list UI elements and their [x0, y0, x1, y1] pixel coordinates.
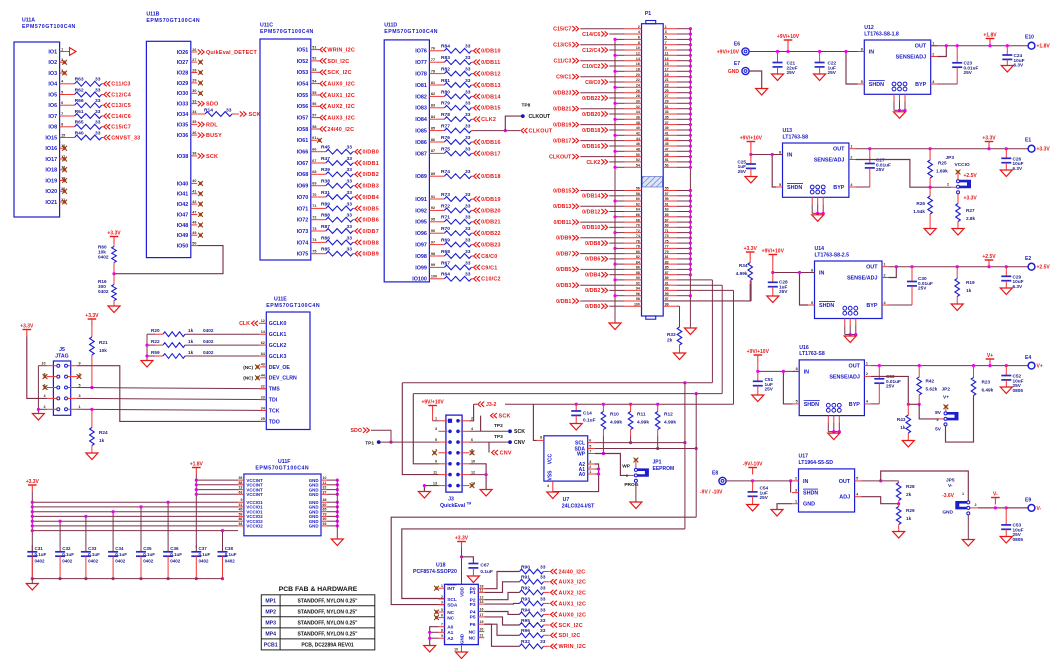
- power +2.5V: [985, 259, 994, 261]
- svg-text:R73: R73: [441, 192, 450, 198]
- svg-text:STANDOFF, NYLON 0.25": STANDOFF, NYLON 0.25": [297, 621, 358, 627]
- resistor R69 33: [436, 244, 445, 246]
- resistor R63 33: [66, 83, 75, 85]
- svg-text:+3.3V: +3.3V: [744, 246, 758, 252]
- P1 pin 16 (left): [625, 65, 642, 67]
- svg-text:9: 9: [435, 460, 437, 464]
- svg-text:85: 85: [665, 266, 669, 270]
- SDA vertical right: [695, 394, 697, 518]
- P1 pin 13 (right): [663, 60, 677, 62]
- svg-text:91: 91: [431, 195, 435, 199]
- svg-text:0805: 0805: [1013, 537, 1024, 542]
- svg-text:100: 100: [431, 275, 437, 279]
- svg-text:16: 16: [480, 608, 484, 612]
- svg-text:SENSE/ADJ: SENSE/ADJ: [847, 276, 878, 282]
- capacitor C67 0.1uF: [462, 557, 474, 564]
- J5 pins 2/1: [57, 408, 60, 411]
- P1 pin 57 (right): [663, 195, 677, 197]
- wire P1 pin 6 to left rail: [615, 38, 625, 40]
- P1 pin 20 (left): [625, 76, 642, 78]
- svg-text:8: 8: [811, 268, 813, 272]
- net label AUX2_I2C: [551, 590, 557, 595]
- svg-text:0/DB5: 0/DB5: [363, 206, 379, 212]
- P1 pin 52 (left): [625, 161, 642, 163]
- wire P1 pin 3 to right rail: [677, 33, 690, 35]
- svg-text:0/DB2: 0/DB2: [585, 288, 600, 294]
- svg-text:(NC): (NC): [243, 365, 253, 370]
- wire P1 pin 91 crossover: [677, 284, 722, 286]
- svg-text:22: 22: [636, 78, 640, 82]
- resistor R70 33: [436, 232, 445, 234]
- svg-text:AUX0_I2C: AUX0_I2C: [327, 82, 355, 88]
- svg-text:43: 43: [665, 137, 669, 141]
- svg-text:0/DB10: 0/DB10: [582, 225, 600, 231]
- svg-text:R70: R70: [441, 226, 450, 232]
- X no-connect U18 NC pins: [434, 610, 439, 615]
- svg-text:25V: 25V: [964, 70, 973, 75]
- svg-text:58: 58: [312, 125, 316, 129]
- wire P1 pin 11 to right rail: [677, 54, 690, 56]
- svg-text:33: 33: [347, 247, 353, 253]
- jumper JP2: [944, 404, 949, 409]
- P1 pin 97 (right): [663, 300, 677, 302]
- svg-text:IO8: IO8: [48, 125, 57, 131]
- wire P1 pin 27 to right rail: [677, 97, 690, 99]
- P1 pin 38 (left): [625, 124, 642, 126]
- resistor R80 33: [436, 95, 445, 97]
- svg-text:LT1763-S8-1.8: LT1763-S8-1.8: [864, 31, 899, 37]
- svg-text:IO69: IO69: [297, 184, 309, 190]
- capacitor C31 0.1uF 0402: [31, 545, 33, 552]
- P1 pin 47 (right): [663, 150, 677, 152]
- svg-text:57: 57: [312, 113, 316, 117]
- svg-text:41: 41: [665, 132, 669, 136]
- svg-text:R43: R43: [897, 417, 906, 422]
- svg-text:100: 100: [634, 302, 640, 306]
- svg-text:0402: 0402: [62, 558, 73, 563]
- P1 pin 14 (left): [625, 60, 642, 62]
- svg-text:EPM570GT100C4N: EPM570GT100C4N: [22, 24, 76, 30]
- svg-text:0/DB14: 0/DB14: [481, 94, 501, 100]
- svg-text:0.1uF: 0.1uF: [62, 552, 74, 557]
- svg-text:0/DB11: 0/DB11: [553, 220, 571, 226]
- svg-text:0/DB9: 0/DB9: [363, 252, 379, 258]
- svg-text:81: 81: [431, 81, 435, 85]
- P1 pin 25 (right): [663, 92, 677, 94]
- svg-text:SCK: SCK: [514, 429, 525, 435]
- svg-text:AUX1_I2C: AUX1_I2C: [327, 93, 355, 99]
- svg-text:OUT: OUT: [915, 44, 927, 50]
- net label 0/DB8: [355, 240, 361, 245]
- P1 pin 36 (left): [625, 118, 642, 120]
- net label 0/DB20: [474, 208, 480, 213]
- svg-text:29: 29: [665, 100, 669, 104]
- wire J3 pin13 to ground: [424, 486, 438, 491]
- svg-text:6.3V: 6.3V: [1014, 63, 1025, 68]
- P1 pin 33 (right): [663, 113, 677, 115]
- svg-text:86: 86: [238, 517, 242, 521]
- wire P1 pin 81 to right rail: [677, 258, 690, 260]
- svg-text:33: 33: [347, 213, 353, 219]
- svg-text:IO85: IO85: [415, 129, 427, 135]
- capacitor C34 0.1uF 0402: [112, 512, 114, 552]
- ground U12 GND pins: [893, 94, 895, 101]
- svg-text:IO67: IO67: [297, 161, 309, 167]
- svg-text:R64: R64: [441, 272, 450, 278]
- svg-text:C10/C2: C10/C2: [481, 277, 501, 283]
- svg-text:6: 6: [589, 438, 591, 442]
- svg-text:R65: R65: [75, 120, 84, 126]
- resistor R74 33: [436, 175, 445, 177]
- svg-text:0/DB3: 0/DB3: [363, 184, 379, 190]
- resistor R83 33: [436, 61, 445, 63]
- svg-text:C37: C37: [199, 546, 208, 551]
- svg-text:33: 33: [465, 226, 471, 232]
- svg-text:+2.5V: +2.5V: [964, 173, 978, 179]
- svg-text:1: 1: [962, 492, 964, 496]
- ground P1 right rail: [684, 328, 696, 335]
- svg-text:IO83: IO83: [415, 106, 427, 112]
- resistor R16 300 0402: [113, 274, 115, 285]
- svg-text:VDD: VDD: [460, 586, 465, 596]
- svg-text:67: 67: [312, 159, 316, 163]
- svg-text:79: 79: [323, 512, 327, 516]
- power +3.3V R21: [88, 318, 97, 320]
- wire P1 pin 43 to right rail: [677, 140, 690, 142]
- wire +3.3V to VDD: [461, 549, 463, 585]
- resistor R82 33: [436, 73, 445, 75]
- svg-text:IO74: IO74: [297, 240, 309, 246]
- resistor R76 33: [436, 141, 445, 143]
- svg-text:ADJ: ADJ: [839, 495, 850, 501]
- svg-text:SCK: SCK: [249, 112, 261, 118]
- svg-text:0/DB19: 0/DB19: [553, 122, 571, 128]
- svg-text:87: 87: [431, 149, 435, 153]
- wire VCCIO bus: [32, 520, 238, 522]
- svg-text:VCCIO2: VCCIO2: [246, 524, 263, 529]
- svg-text:CLKOUT: CLKOUT: [529, 129, 553, 135]
- svg-text:3: 3: [441, 601, 443, 605]
- svg-text:SDI_I2C: SDI_I2C: [327, 59, 349, 65]
- P1 pin 85 (right): [663, 268, 677, 270]
- svg-text:25V: 25V: [765, 387, 774, 392]
- resistor R33 2k: [677, 327, 682, 345]
- svg-text:CLK2: CLK2: [481, 117, 496, 123]
- svg-text:IO73: IO73: [297, 229, 309, 235]
- svg-text:E2: E2: [1025, 256, 1031, 262]
- SCL vertical right: [684, 383, 686, 529]
- svg-text:V-: V-: [1037, 506, 1042, 512]
- P1 pin 35 (right): [663, 118, 677, 120]
- svg-text:0402: 0402: [203, 350, 214, 355]
- resistor R71 33: [436, 221, 445, 223]
- svg-text:2: 2: [43, 405, 45, 409]
- svg-text:R80: R80: [441, 89, 450, 95]
- P1 pin 93 (right): [663, 289, 677, 291]
- U7 VSS pin: [552, 481, 554, 492]
- resistor R59 1k 0402: [155, 355, 163, 357]
- svg-text:33: 33: [465, 146, 471, 152]
- svg-text:45: 45: [665, 142, 669, 146]
- svg-text:R74: R74: [441, 169, 450, 175]
- J3 pins 3/4: [448, 430, 452, 434]
- svg-text:R69: R69: [441, 238, 450, 244]
- svg-text:0402: 0402: [143, 558, 154, 563]
- svg-text:E6: E6: [734, 42, 740, 48]
- wire P1 pin 51 to right rail: [677, 161, 690, 163]
- svg-text:C33: C33: [88, 546, 97, 551]
- P1 pin 9 (right): [663, 49, 677, 51]
- svg-text:1: 1: [850, 145, 852, 149]
- wire P1 pin 5 to right rail: [677, 38, 690, 40]
- svg-text:IO4: IO4: [48, 82, 57, 88]
- svg-text:C38: C38: [225, 546, 234, 551]
- svg-text:41: 41: [192, 190, 196, 194]
- svg-text:5: 5: [665, 36, 667, 40]
- svg-text:64: 64: [636, 208, 640, 212]
- net label WRIN_I2C: [317, 49, 319, 51]
- svg-text:C12/C4: C12/C4: [582, 48, 600, 54]
- wire GND pin to rail: [327, 520, 337, 522]
- svg-text:33: 33: [465, 203, 471, 209]
- svg-text:93: 93: [323, 522, 327, 526]
- resistor R29 1k: [898, 504, 900, 507]
- svg-text:R11: R11: [637, 412, 646, 418]
- svg-text:84: 84: [636, 260, 640, 264]
- capacitor C36 0.1uF 0402: [167, 502, 169, 552]
- svg-text:GND: GND: [309, 524, 319, 529]
- P1 pin 10 (left): [625, 49, 642, 51]
- svg-text:0402: 0402: [88, 558, 99, 563]
- resistor R66 33: [66, 104, 75, 106]
- svg-text:23: 23: [261, 395, 265, 399]
- svg-text:42: 42: [636, 132, 640, 136]
- resistor R73 33: [436, 198, 445, 200]
- wire P1 pin 24 to left rail: [615, 86, 625, 88]
- wire GND pin to rail: [327, 493, 337, 495]
- X no-connect J5 pin8: [43, 374, 48, 379]
- X no-connect J3 pin8: [470, 450, 475, 455]
- wire P1 pin 19 to right rail: [677, 76, 690, 78]
- P1 pin 28 (left): [625, 97, 642, 99]
- wire GND pin to rail: [327, 501, 337, 503]
- svg-text:9: 9: [665, 46, 667, 50]
- svg-text:5: 5: [779, 183, 781, 187]
- svg-text:2: 2: [626, 474, 628, 478]
- wire U17 OUT: [861, 480, 899, 482]
- svg-text:68: 68: [312, 170, 316, 174]
- svg-text:10: 10: [454, 648, 458, 652]
- svg-text:IO58: IO58: [297, 127, 309, 133]
- svg-text:WRIN_I2C: WRIN_I2C: [559, 644, 587, 650]
- svg-text:GND: GND: [309, 492, 319, 497]
- ground J5: [32, 414, 44, 421]
- svg-text:R25: R25: [938, 161, 947, 166]
- svg-text:TCK: TCK: [269, 408, 280, 414]
- net label CNV: [492, 450, 498, 455]
- svg-text:8: 8: [540, 435, 542, 439]
- svg-text:33: 33: [665, 110, 669, 114]
- svg-text:3: 3: [435, 427, 437, 431]
- svg-text:SENSE/ADJ: SENSE/ADJ: [829, 374, 860, 380]
- P1 pin 94 (left): [625, 289, 642, 291]
- svg-text:IO92: IO92: [415, 208, 427, 214]
- svg-text:36: 36: [192, 131, 196, 135]
- svg-text:VCCINT: VCCINT: [246, 492, 263, 497]
- resistor R65 33: [66, 126, 75, 128]
- svg-text:MP3: MP3: [265, 621, 276, 627]
- U11F right ground rail: [336, 480, 338, 538]
- svg-text:33: 33: [465, 44, 471, 50]
- J5 ground rail: [37, 366, 39, 413]
- wire U7 WP to JP1: [595, 454, 629, 476]
- svg-text:MP1: MP1: [265, 599, 276, 605]
- svg-text:2: 2: [795, 477, 797, 481]
- wire P1 pin93 vertical: [733, 290, 735, 404]
- resistor R60 10k 0402: [113, 244, 115, 247]
- P1 pin 27 (right): [663, 97, 677, 99]
- svg-text:2: 2: [638, 25, 640, 29]
- svg-text:38: 38: [636, 121, 640, 125]
- svg-text:0/DB16: 0/DB16: [582, 144, 600, 150]
- svg-text:SHDN: SHDN: [787, 185, 802, 191]
- net label SDI_I2C: [317, 60, 319, 62]
- svg-text:85: 85: [431, 126, 435, 130]
- svg-text:IO18: IO18: [45, 168, 57, 174]
- net label BUSY: [198, 133, 204, 138]
- svg-text:NC: NC: [447, 610, 454, 616]
- svg-text:33: 33: [347, 224, 353, 230]
- svg-text:P5: P5: [470, 615, 476, 621]
- svg-text:53: 53: [312, 68, 316, 72]
- svg-text:IO96: IO96: [415, 231, 427, 237]
- resistor R94 33: [484, 612, 519, 615]
- svg-text:IO19: IO19: [45, 178, 57, 184]
- P1 pin 86 (left): [625, 268, 642, 270]
- svg-text:0/DB3: 0/DB3: [556, 283, 571, 289]
- wire P1 pin 63 to right rail: [677, 211, 690, 213]
- wire +9V to U14 IN: [772, 262, 774, 273]
- svg-text:0/DB15: 0/DB15: [481, 106, 501, 112]
- svg-text:C11/C3: C11/C3: [111, 82, 130, 88]
- resistor R68 33: [436, 255, 445, 257]
- svg-text:J3-2: J3-2: [486, 402, 496, 408]
- net label C8/C0: [474, 253, 480, 258]
- SCL lower route to U18: [402, 529, 685, 599]
- svg-text:0/DB1: 0/DB1: [556, 299, 571, 305]
- wire OUT to JP5 pin1: [881, 471, 969, 501]
- svg-text:95: 95: [665, 292, 669, 296]
- svg-text:25V: 25V: [918, 286, 927, 291]
- J5 pins 8/7: [57, 375, 60, 378]
- svg-text:1: 1: [884, 263, 886, 267]
- P1 pin 2 (left): [625, 28, 642, 30]
- ground R33: [674, 353, 686, 360]
- svg-text:73: 73: [312, 227, 316, 231]
- wire P1 pin 78 to left rail: [615, 247, 625, 249]
- svg-text:12: 12: [636, 52, 640, 56]
- svg-text:EPM570GT100C4N: EPM570GT100C4N: [260, 29, 314, 35]
- wire P1 pin 33 to right rail: [677, 113, 690, 115]
- svg-text:29: 29: [192, 79, 196, 83]
- svg-text:0/DB18: 0/DB18: [481, 174, 501, 180]
- svg-text:33: 33: [540, 618, 546, 624]
- svg-text:IO98: IO98: [415, 254, 427, 260]
- svg-text:IO7: IO7: [48, 114, 57, 120]
- svg-text:R27: R27: [966, 208, 975, 213]
- svg-text:1: 1: [79, 405, 81, 409]
- svg-text:24/40_I2C: 24/40_I2C: [327, 127, 354, 133]
- svg-text:C9/C1: C9/C1: [481, 265, 497, 271]
- wire P1 pin 65 to right rail: [677, 216, 690, 218]
- svg-text:OUT: OUT: [866, 265, 878, 271]
- svg-text:0/DB10: 0/DB10: [481, 49, 501, 55]
- net label CLKOUT: [521, 128, 527, 133]
- svg-text:IO81: IO81: [415, 83, 427, 89]
- svg-text:BYP: BYP: [866, 303, 877, 309]
- net label 0/DB3: [355, 183, 361, 188]
- wire P1 pin 17 to right rail: [677, 70, 690, 72]
- resistor R79 33: [436, 107, 445, 109]
- svg-text:74: 74: [636, 234, 640, 238]
- svg-text:CNV: CNV: [500, 450, 512, 456]
- net label 0/DB18: [474, 174, 480, 179]
- svg-text:55: 55: [312, 91, 316, 95]
- resistor R62 33: [66, 94, 75, 96]
- svg-text:R79: R79: [441, 101, 450, 107]
- P1 pin 15 (right): [663, 65, 677, 67]
- ground U18 A pins: [424, 646, 436, 653]
- svg-text:R24: R24: [99, 430, 108, 435]
- P1 pin 42 (left): [625, 134, 642, 136]
- svg-text:U14: U14: [815, 246, 825, 252]
- svg-text:0.1uF: 0.1uF: [225, 552, 237, 557]
- svg-text:91: 91: [665, 281, 669, 285]
- svg-text:5: 5: [589, 444, 591, 448]
- wire TDI J5 pin3 to U11E: [77, 398, 266, 399]
- svg-text:R20: R20: [151, 328, 160, 333]
- svg-text:96: 96: [636, 292, 640, 296]
- svg-text:33: 33: [347, 156, 353, 162]
- P1 pin 84 (left): [625, 263, 642, 265]
- svg-text:DEV_CLRN: DEV_CLRN: [269, 376, 297, 382]
- ground P1 left rail: [609, 323, 621, 330]
- svg-text:78: 78: [636, 245, 640, 249]
- net label C15/C7: [104, 124, 110, 129]
- svg-text:0/DB18: 0/DB18: [582, 128, 600, 134]
- svg-text:C14/C6: C14/C6: [582, 32, 600, 38]
- U18 GND pin to ground: [461, 645, 463, 652]
- P1 pin 99 (right): [663, 305, 677, 307]
- svg-text:0.1uF: 0.1uF: [480, 569, 493, 575]
- capacitor C52 10uF 25V 0805: [1005, 364, 1008, 367]
- svg-text:0/DB21: 0/DB21: [553, 107, 571, 113]
- P1 pin 70 (left): [625, 226, 642, 228]
- P1 pin 75 (right): [663, 242, 677, 244]
- wire P1 pin97 to R34: [750, 281, 752, 301]
- svg-text:71: 71: [312, 204, 316, 208]
- svg-text:IO97: IO97: [415, 243, 427, 249]
- svg-text:5: 5: [856, 477, 858, 481]
- svg-text:33: 33: [465, 192, 471, 198]
- wire CLKOUT to TP8: [473, 130, 520, 132]
- wire VCCIO bus: [32, 515, 238, 517]
- svg-text:33: 33: [347, 201, 353, 207]
- net label C10/C2: [474, 276, 480, 281]
- svg-text:27: 27: [665, 94, 669, 98]
- svg-text:R33: R33: [667, 332, 676, 337]
- wire U7 A2 A1 A0 tie: [553, 464, 599, 492]
